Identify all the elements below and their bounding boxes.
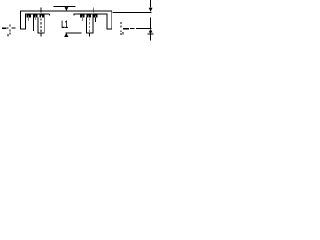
right inner wall [106, 14, 108, 30]
left hatched block 1 [26, 14, 31, 17]
right dim tail top [150, 0, 152, 8]
main plate top line [20, 10, 112, 12]
right sub-plate line [74, 13, 108, 15]
left clamp centre stub below [40, 33, 42, 36]
right clamp left wall [86, 18, 88, 34]
left ext line segment [11, 27, 15, 29]
right dim line middle [150, 17, 152, 28]
left inner wall [25, 14, 27, 30]
right outer wall [111, 11, 113, 30]
right offset dash [122, 32, 124, 35]
left dashed vertical [9, 24, 11, 34]
left clamp bottom [38, 32, 45, 34]
right lower tick [148, 33, 154, 35]
left clamp left wall [37, 18, 39, 34]
left inner partition wall [33, 18, 35, 31]
right hatched block 2 [86, 14, 91, 17]
svg-text:L1: L1 [61, 18, 68, 30]
right clamp right wall [92, 14, 94, 33]
left outer wall [19, 11, 21, 30]
L1 top shelf line [54, 6, 76, 8]
top ext line right [113, 11, 152, 13]
left hidden edge thick bar [2, 27, 7, 29]
left hidden edge dash [7, 27, 8, 29]
left clamp centre line tick above plate [40, 7, 42, 12]
right clamp bottom [86, 32, 93, 34]
left clamp centre line dashes [40, 18, 42, 32]
right dim tail bottom [150, 33, 152, 41]
right ext line [130, 28, 151, 30]
L1 bottom shelf line [66, 32, 82, 34]
right dim down arrow [149, 8, 153, 12]
left sub-plate line [25, 13, 50, 15]
L1 down arrow [65, 7, 69, 11]
right hatched block 3 [93, 14, 98, 17]
right hidden edge thick bar [123, 28, 129, 30]
left channel bottom [20, 28, 26, 30]
left sub-plate end tick [48, 14, 50, 16]
right pin 1 [81, 18, 83, 21]
left hatched block 2 [33, 14, 38, 17]
left clamp right wall [43, 14, 45, 33]
right clamp centre stub below [89, 33, 91, 36]
L1 up arrow [64, 33, 68, 37]
right clamp centre line dashes [89, 18, 91, 32]
right tick above plate [92, 7, 94, 12]
right hatched block 1 [80, 14, 85, 17]
left pin 2 [34, 18, 36, 20]
right dashed vertical [120, 22, 122, 35]
right dim up arrow [149, 29, 153, 33]
right channel bottom [107, 28, 113, 30]
left offset dash [7, 34, 9, 37]
left hatched block 3 [39, 14, 44, 17]
right pin 3 [94, 18, 96, 22]
left pin 1 [28, 18, 30, 21]
right sub-plate start tick [73, 14, 75, 16]
